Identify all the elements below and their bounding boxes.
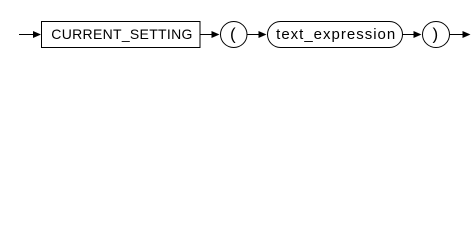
arrowhead into text_expression xyxy=(259,31,267,38)
arrowhead end xyxy=(463,31,471,38)
svg-text:text_expression: text_expression xyxy=(276,26,396,43)
arrowhead into CURRENT_SETTING xyxy=(33,31,41,38)
wire open-paren to text_expression xyxy=(247,34,260,36)
svg-text:CURRENT_SETTING: CURRENT_SETTING xyxy=(51,26,192,42)
wire box to open-paren xyxy=(200,34,213,36)
terminal circle open-paren xyxy=(221,22,248,48)
wire end xyxy=(450,34,464,36)
arrowhead into close-paren xyxy=(414,31,422,38)
wire start xyxy=(19,34,34,36)
svg-text:(: ( xyxy=(230,25,236,44)
svg-text:): ) xyxy=(432,25,438,44)
arrowhead into open-paren xyxy=(212,31,220,38)
terminal stadium text_expression xyxy=(268,22,403,48)
terminal circle close-paren xyxy=(423,22,450,48)
keyword box CURRENT_SETTING xyxy=(42,22,201,48)
wire text_expression to close-paren xyxy=(403,34,415,36)
